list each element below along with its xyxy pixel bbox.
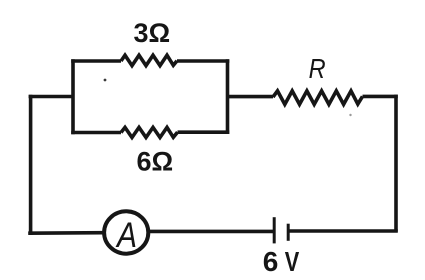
svg-text:6: 6 [263,246,279,277]
svg-text:R: R [309,53,326,84]
wire bottom right segment [288,229,398,233]
wire left vertical [29,95,33,235]
wire top branch left [71,59,121,63]
svg-text:6Ω: 6Ω [137,147,174,177]
svg-text:3Ω: 3Ω [134,18,171,48]
wire bottom branch right [178,130,230,134]
wire top branch right [177,59,229,63]
wire left connector [29,95,73,99]
battery short plate [287,224,290,241]
battery long plate [273,217,276,243]
resistor R2 6ohm [121,127,178,137]
resistor R1 3ohm [121,55,177,65]
ammeter A1 circle [104,211,148,253]
battery B1 plates [274,217,288,243]
resistor R [273,91,363,105]
wire parallel-box left edge [71,59,75,134]
svg-text:V: V [285,246,300,277]
speck dot near box [104,79,107,82]
wire right vertical [394,95,398,232]
wire bottom left segment [28,231,104,235]
wire right connector [228,95,274,99]
speck dot below R [349,114,351,116]
wire R to right corner [363,95,398,99]
wire bottom branch left [71,131,121,135]
wire bottom middle segment battery to ammeter [149,230,274,234]
svg-text:A: A [115,216,137,255]
wire parallel-box right edge [226,59,230,134]
